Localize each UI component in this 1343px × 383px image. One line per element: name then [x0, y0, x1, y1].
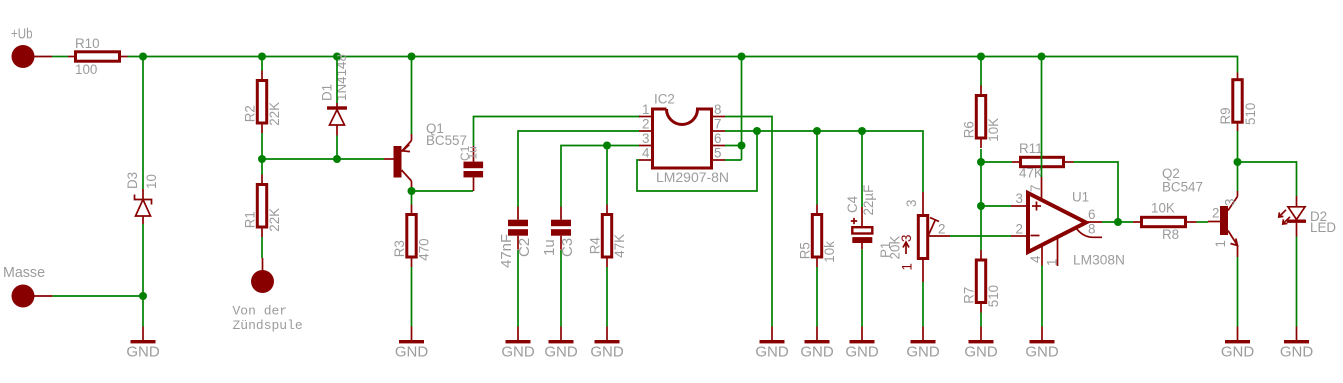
svg-text:GND: GND	[906, 344, 940, 361]
wire C4 to GND	[861, 249, 863, 326]
resistor R3	[392, 205, 431, 268]
svg-text:470: 470	[417, 238, 432, 260]
wire Q2 collector up	[1237, 162, 1239, 191]
svg-text:+Ub: +Ub	[11, 26, 33, 43]
wire IC2 pin7 net	[725, 131, 923, 192]
resistor R10	[68, 36, 128, 77]
wire pin3 node to R11	[981, 161, 1012, 163]
junction pin6	[738, 142, 746, 150]
ground	[395, 327, 429, 361]
svg-text:LM2907-8N: LM2907-8N	[656, 170, 729, 185]
svg-text:C4: C4	[845, 195, 860, 213]
svg-text:22µF: 22µF	[861, 185, 876, 216]
ground	[1280, 327, 1314, 361]
junction V+ rail	[738, 53, 746, 61]
svg-text:GND: GND	[845, 344, 879, 361]
junction R4 tap	[603, 142, 611, 150]
resistor R11	[1012, 141, 1074, 181]
ground	[800, 327, 834, 361]
wire Masse to node	[53, 295, 143, 297]
wire pin7 net to C4	[861, 131, 863, 207]
resistor R8	[1133, 201, 1197, 243]
wire IC2 pin8 to GND	[725, 117, 772, 327]
svg-text:GND: GND	[395, 344, 429, 361]
wire P1 wiper to U1 pin2	[950, 235, 1011, 237]
svg-text:6: 6	[1088, 207, 1095, 222]
wire base node to R1	[261, 159, 263, 175]
potentiometer P1	[878, 192, 950, 282]
svg-text:IC2: IC2	[654, 92, 675, 107]
svg-text:D1: D1	[320, 84, 335, 101]
wire V+ rail	[128, 57, 1238, 73]
svg-text:1: 1	[900, 263, 915, 270]
svg-text:5: 5	[714, 146, 721, 161]
wire R2 to base node	[261, 133, 263, 159]
junction pin4 tap	[753, 127, 761, 135]
svg-text:3: 3	[1223, 199, 1238, 206]
svg-text:Masse: Masse	[3, 264, 45, 281]
svg-text:GND: GND	[501, 344, 535, 361]
svg-text:U1: U1	[1072, 190, 1089, 205]
op IC2 LM2907-8N body	[639, 92, 729, 186]
svg-text:2: 2	[1016, 222, 1023, 237]
svg-text:BC547: BC547	[1162, 180, 1203, 195]
junction V+ rail	[408, 53, 416, 61]
wire collector node to D2	[1238, 162, 1297, 196]
svg-text:GND: GND	[755, 344, 789, 361]
svg-text:1: 1	[1213, 240, 1228, 247]
junction output node	[1114, 218, 1122, 226]
capacitor C4 (polarized)	[845, 185, 876, 250]
svg-text:R3: R3	[392, 240, 407, 257]
wire pin3 net to R4	[606, 146, 608, 205]
svg-text:R10: R10	[75, 36, 100, 51]
svg-text:Zündspule: Zündspule	[233, 318, 303, 333]
capacitor C1	[458, 145, 483, 191]
wire U1 out to R8	[1102, 221, 1133, 223]
svg-text:1: 1	[1045, 259, 1060, 266]
svg-text:7: 7	[1028, 185, 1043, 192]
junction U1 pin3 tap	[977, 202, 985, 210]
wire D1 to base node	[336, 136, 338, 160]
svg-text:2: 2	[1212, 206, 1219, 221]
wire V+ to pins 5 6	[741, 57, 743, 161]
capacitor C2	[508, 207, 528, 250]
wire V+ column to D3	[142, 57, 144, 190]
svg-text:R6: R6	[962, 121, 977, 138]
wire divider to U1 pin3	[981, 205, 1011, 207]
ground	[1221, 327, 1255, 361]
wire pin7 net to R5	[816, 131, 818, 205]
wire IC2 pin4 loop	[637, 131, 757, 191]
svg-text:GND: GND	[800, 344, 834, 361]
op-amp U1 LM308N	[1011, 177, 1125, 268]
wire C2 to GND	[517, 250, 519, 327]
svg-text:GND: GND	[1221, 344, 1255, 361]
junction base node left	[258, 155, 266, 163]
wire R3 to GND	[411, 267, 413, 327]
svg-text:7: 7	[714, 117, 721, 132]
ground	[964, 327, 998, 361]
svg-text:R7: R7	[962, 287, 977, 304]
wire V+ to R2	[261, 57, 263, 71]
svg-text:22K: 22K	[267, 102, 282, 126]
svg-text:100: 100	[75, 62, 97, 77]
ground	[501, 327, 535, 361]
svg-text:10K: 10K	[1151, 201, 1175, 216]
svg-text:1: 1	[642, 102, 649, 117]
svg-text:47K: 47K	[612, 234, 627, 258]
svg-text:D3: D3	[125, 172, 140, 189]
svg-text:47K: 47K	[1019, 166, 1043, 181]
ground	[126, 327, 160, 361]
svg-text:R1: R1	[243, 211, 258, 228]
svg-text:20K: 20K	[888, 236, 903, 260]
wire R7 to GND	[980, 313, 982, 327]
ground	[845, 327, 879, 361]
wire V+ to R6	[980, 57, 982, 87]
wire node to GND	[142, 296, 144, 327]
svg-text:510: 510	[1243, 103, 1258, 125]
svg-text:GND: GND	[964, 344, 998, 361]
svg-text:47nF: 47nF	[498, 234, 515, 268]
transistor Q2 BC547	[1162, 166, 1238, 257]
ground	[906, 327, 940, 361]
svg-text:R8: R8	[1162, 227, 1179, 242]
svg-text:LED: LED	[1310, 220, 1336, 235]
ground	[1025, 327, 1059, 361]
svg-text:510: 510	[986, 285, 1001, 307]
wire R11 to output node	[1074, 162, 1119, 222]
junction V+ rail	[1038, 53, 1046, 61]
svg-text:R9: R9	[1218, 107, 1233, 124]
wire R6 to R7	[980, 149, 982, 250]
pad Masse	[3, 264, 53, 308]
wire R5 to GND	[816, 267, 818, 327]
wire V+ to Q1 emitter	[411, 57, 413, 135]
wire Q1 collector down	[411, 187, 413, 205]
svg-text:10k: 10k	[822, 241, 837, 263]
transistor Q1 BC557	[384, 121, 467, 188]
wire IC2 pin2 to C2	[518, 131, 639, 207]
junction collector node	[1234, 158, 1242, 166]
resistor R6	[962, 86, 1001, 149]
junction V+ rail	[333, 53, 341, 61]
resistor R9	[1218, 73, 1258, 132]
zener diode D3	[125, 172, 159, 224]
resistor R1	[243, 175, 282, 238]
junction R5 tap	[813, 127, 821, 135]
wire D3 to Masse node	[142, 224, 144, 296]
svg-text:1u: 1u	[466, 146, 480, 159]
svg-text:8: 8	[1088, 222, 1095, 237]
pad Von der Zuendspule	[233, 258, 303, 333]
svg-text:GND: GND	[590, 344, 624, 361]
svg-text:22K: 22K	[267, 208, 282, 232]
pad +Ub	[11, 26, 52, 69]
wire D2 to GND	[1296, 237, 1298, 327]
svg-text:6: 6	[714, 131, 721, 146]
junction D1 anode	[333, 155, 341, 163]
wire IC2 pin3 to C3	[561, 146, 639, 208]
wire V+ to D1	[336, 57, 338, 104]
svg-text:R11: R11	[1019, 141, 1043, 156]
junction V+ rail	[139, 53, 147, 61]
svg-text:2: 2	[642, 117, 649, 132]
wire C1 to IC2 pin 1	[474, 117, 641, 147]
svg-text:3: 3	[904, 200, 919, 207]
svg-text:R2: R2	[243, 105, 258, 122]
junction Masse node	[139, 292, 147, 300]
wire R4 to GND	[606, 267, 608, 327]
wire C3 to GND	[560, 250, 562, 327]
svg-text:R5: R5	[798, 242, 813, 259]
ground	[590, 327, 624, 361]
wire IC2 pin5	[725, 159, 742, 161]
diode D1	[320, 54, 350, 135]
svg-text:GND: GND	[1280, 344, 1314, 361]
wire R8 to Q2 base	[1197, 221, 1209, 223]
capacitor C3	[551, 207, 571, 250]
wire V+ to U1 pin7	[1041, 57, 1043, 178]
LED D2	[1279, 196, 1337, 237]
junction R11 tap	[977, 158, 985, 166]
junction Q1 collector	[408, 187, 416, 195]
wire U1 pin4 to GND	[1041, 266, 1043, 327]
svg-text:GND: GND	[126, 344, 160, 361]
svg-text:GND: GND	[1025, 344, 1059, 361]
svg-text:4: 4	[1028, 255, 1043, 263]
junction V+ rail	[258, 53, 266, 61]
svg-text:LM308N: LM308N	[1073, 253, 1125, 268]
wire Q2 emitter to GND	[1237, 257, 1239, 327]
svg-text:GND: GND	[544, 344, 578, 361]
ground	[755, 327, 789, 361]
svg-text:3: 3	[642, 131, 649, 146]
svg-text:R4: R4	[588, 237, 603, 255]
svg-text:10: 10	[144, 174, 159, 189]
resistor R2	[243, 71, 282, 134]
svg-text:4: 4	[642, 146, 650, 161]
svg-text:1u: 1u	[541, 239, 558, 256]
resistor R5	[798, 205, 837, 268]
resistor R7	[962, 250, 1001, 313]
junction V+ rail	[977, 53, 985, 61]
wire R1 to input pad	[261, 237, 263, 258]
wire R9 to collector node	[1237, 131, 1239, 162]
svg-text:3: 3	[1016, 191, 1023, 206]
ground	[544, 327, 578, 361]
wire P1 to GND	[922, 282, 924, 327]
svg-text:2: 2	[938, 222, 945, 237]
wire base node row	[262, 158, 384, 160]
svg-text:10K: 10K	[986, 118, 1001, 142]
svg-text:8: 8	[714, 102, 721, 117]
resistor R4	[588, 205, 627, 268]
svg-text:Von der: Von der	[233, 304, 288, 319]
wire +Ub to R10	[52, 56, 68, 58]
wire IC2 pin6	[725, 145, 742, 147]
junction C4 tap	[858, 127, 866, 135]
wire collector node to C1	[412, 190, 474, 192]
